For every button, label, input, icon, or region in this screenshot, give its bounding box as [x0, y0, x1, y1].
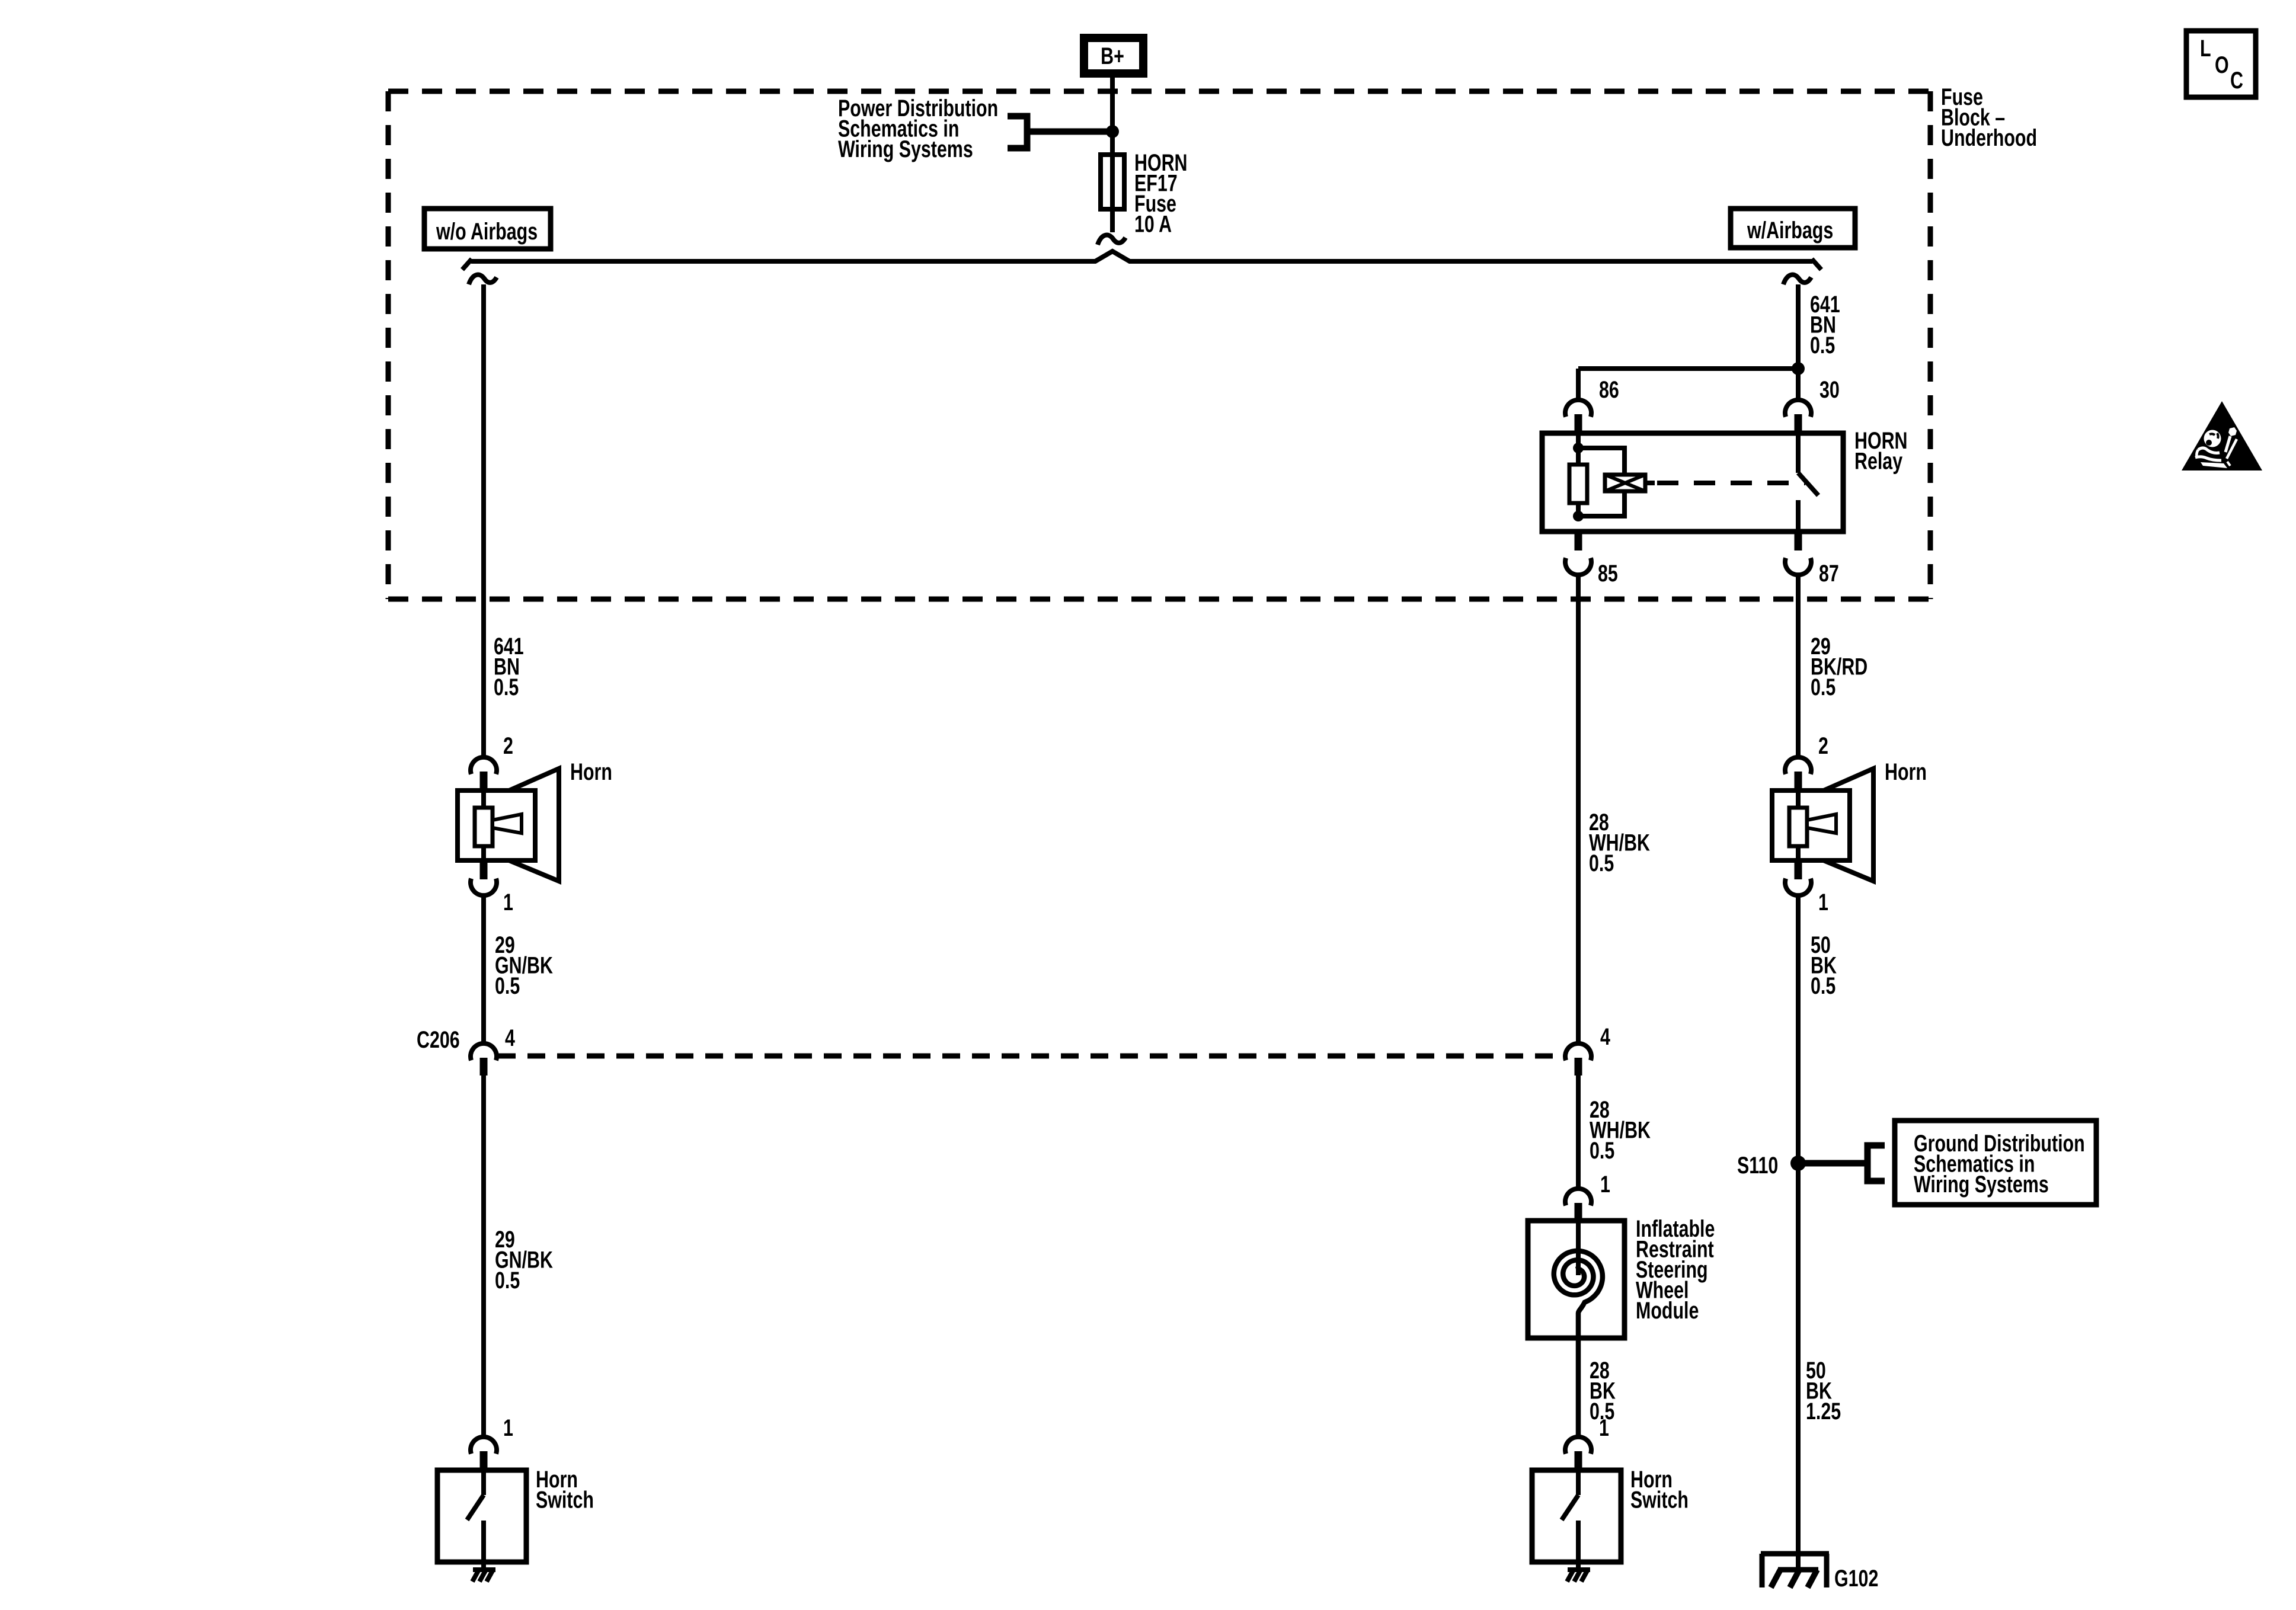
- relay coil resistor element: [1569, 465, 1587, 503]
- svg-text:10 A: 10 A: [1134, 210, 1172, 237]
- fuse HORN EF17 10A: [1101, 155, 1124, 209]
- relay pin 86 stub: [1575, 414, 1582, 433]
- wire break top of left horn feed: [469, 275, 497, 284]
- svg-text:1: 1: [503, 1414, 513, 1441]
- svg-text:w/Airbags: w/Airbags: [1747, 217, 1833, 244]
- svg-text:0.5: 0.5: [1811, 972, 1835, 999]
- svg-text:30: 30: [1819, 376, 1840, 403]
- LOC legend box: [2186, 31, 2256, 97]
- wire B+ to HORN fuse: [1110, 78, 1115, 232]
- box ground distribution note: [1895, 1121, 2096, 1205]
- relay switch blade: [1798, 473, 1818, 495]
- fuse block underhood dashed border left: [386, 91, 391, 599]
- relay switch common: [1796, 433, 1801, 473]
- module pin connector: [1565, 1189, 1591, 1206]
- wire right relay feed 641 BN: [1796, 284, 1801, 401]
- relay pin 85 connector: [1565, 558, 1591, 575]
- svg-text:0.5: 0.5: [1590, 1137, 1614, 1164]
- svg-text:L: L: [2200, 35, 2211, 62]
- wire relay 85 to C206 pin 4: [1576, 575, 1581, 1044]
- svg-text:Horn: Horn: [1885, 758, 1927, 785]
- module clockspring coil and wire to horn switch: [1576, 1221, 1581, 1275]
- relay coil bottom junction dot: [1573, 511, 1584, 521]
- svg-text:85: 85: [1598, 560, 1618, 587]
- left horn switch: [471, 1437, 497, 1454]
- right horn: [1785, 757, 1811, 774]
- svg-text:1: 1: [1818, 889, 1828, 916]
- splice S110 dot: [1790, 1156, 1806, 1171]
- wire break top of right relay feed: [1783, 275, 1811, 284]
- bus left end tick: [462, 259, 472, 270]
- options bus line w/o airbags to w/airbags: [471, 251, 1812, 261]
- box w/Airbags: [1731, 209, 1855, 248]
- svg-text:Module: Module: [1636, 1297, 1699, 1324]
- airbag warning triangle: [2182, 401, 2262, 470]
- module pin stub: [1575, 1203, 1582, 1221]
- svg-text:1: 1: [1600, 1171, 1610, 1198]
- relay pin 30 stub: [1795, 414, 1802, 433]
- svg-text:w/o Airbags: w/o Airbags: [436, 218, 538, 245]
- relay switch output wire: [1796, 500, 1801, 532]
- svg-text:Switch: Switch: [1630, 1486, 1689, 1513]
- svg-text:S110: S110: [1737, 1152, 1778, 1179]
- svg-text:2: 2: [503, 732, 513, 759]
- C206 middle connector: [1565, 1044, 1591, 1061]
- svg-text:4: 4: [1600, 1023, 1610, 1050]
- svg-text:1: 1: [503, 889, 513, 916]
- svg-text:2: 2: [1818, 732, 1828, 759]
- svg-text:C: C: [2230, 67, 2243, 94]
- wire relay 87 down 29 BK/RD: [1796, 575, 1801, 758]
- power feed symbol B+ box: [1084, 38, 1143, 73]
- C206 connector dashed pair line: [498, 1054, 1565, 1059]
- bus right end tick: [1812, 259, 1821, 270]
- svg-text:86: 86: [1599, 376, 1619, 403]
- relay pin 86 connector: [1565, 400, 1591, 417]
- svg-text:1: 1: [1599, 1414, 1609, 1441]
- wire break below fuse: [1098, 235, 1125, 245]
- ground G102 symbol: [1761, 1551, 1829, 1557]
- relay pin 87 stub: [1795, 532, 1802, 550]
- svg-text:0.5: 0.5: [495, 972, 520, 999]
- relay actuation dashed link: [1645, 481, 1655, 485]
- wire to relay pin 86: [1578, 366, 1798, 371]
- wire right horn to ground G102: [1796, 895, 1801, 1570]
- fuse block underhood dashed border right: [1928, 91, 1933, 599]
- svg-text:0.5: 0.5: [1810, 332, 1835, 359]
- svg-text:O: O: [2215, 52, 2229, 78]
- svg-text:G102: G102: [1834, 1565, 1878, 1592]
- middle horn switch: [1565, 1437, 1591, 1454]
- inflatable restraint steering wheel module box: [1528, 1221, 1625, 1338]
- relay pin 30 connector: [1785, 400, 1811, 417]
- svg-text:Relay: Relay: [1854, 447, 1902, 474]
- wire middle C206 to module: [1576, 1076, 1581, 1190]
- left horn: [471, 757, 497, 774]
- svg-text:1.25: 1.25: [1806, 1398, 1841, 1425]
- relay coil wires: [1576, 433, 1581, 465]
- relay coil top junction dot: [1573, 443, 1584, 453]
- relay pin 87 connector: [1785, 558, 1811, 575]
- C206 middle stub: [1575, 1058, 1582, 1076]
- svg-text:B+: B+: [1101, 43, 1124, 69]
- svg-text:Switch: Switch: [536, 1486, 594, 1513]
- fuse block underhood dashed border bottom: [388, 597, 1930, 602]
- svg-text:4: 4: [505, 1025, 515, 1051]
- relay solenoid valve symbol: [1605, 475, 1645, 491]
- svg-text:0.5: 0.5: [1811, 674, 1835, 700]
- svg-text:Horn: Horn: [570, 758, 612, 785]
- box w/o Airbags: [424, 209, 551, 249]
- svg-text:Wiring Systems: Wiring Systems: [838, 136, 973, 162]
- junction dot at B+ wire: [1106, 125, 1119, 138]
- svg-text:C206: C206: [417, 1026, 460, 1053]
- svg-text:0.5: 0.5: [494, 674, 519, 700]
- wire left C206 to horn switch: [481, 1076, 486, 1438]
- relay coil loop: [1578, 448, 1625, 516]
- horn relay box: [1542, 433, 1843, 532]
- fuse block underhood dashed border top: [388, 89, 1930, 94]
- wire left horn to C206: [481, 895, 486, 1044]
- svg-text:Wiring Systems: Wiring Systems: [1914, 1171, 2049, 1198]
- svg-text:87: 87: [1819, 560, 1839, 587]
- relay pin 85 stub: [1575, 532, 1582, 550]
- junction dot relay pins 30/86: [1792, 362, 1805, 375]
- svg-text:0.5: 0.5: [495, 1267, 520, 1294]
- C206 left stub: [480, 1058, 488, 1076]
- bracket to power distribution note: [1008, 116, 1027, 148]
- svg-text:0.5: 0.5: [1589, 850, 1614, 876]
- wire left horn feed 641 BN: [481, 284, 486, 758]
- C206 left connector: [471, 1044, 497, 1061]
- bracket ground distribution note: [1868, 1145, 1885, 1181]
- svg-text:Underhood: Underhood: [1941, 124, 2037, 151]
- wire S110 to ground note bracket: [1798, 1160, 1868, 1167]
